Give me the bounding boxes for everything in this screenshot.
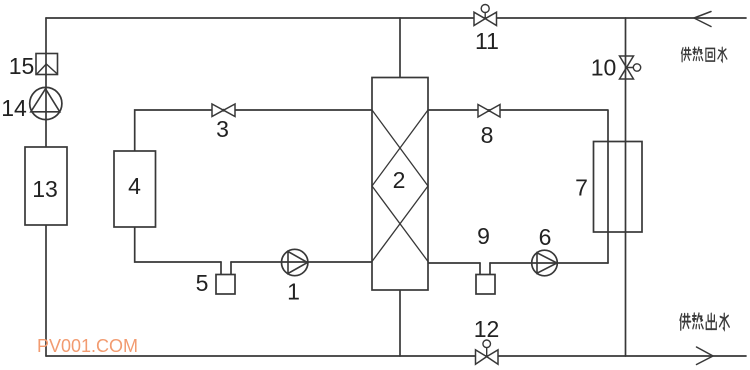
wire right loop supply — [428, 110, 608, 263]
valve 10 — [620, 56, 641, 79]
pump 6 — [532, 250, 558, 276]
wire right loop return — [428, 262, 608, 264]
wire strainer 9 stems — [480, 263, 490, 275]
strainer 9 pot — [476, 275, 495, 295]
svg-text:10: 10 — [591, 55, 617, 81]
svg-text:12: 12 — [474, 316, 500, 342]
wire exchanger bottom stem — [399, 290, 401, 356]
valve 8 — [478, 105, 500, 118]
svg-text:2: 2 — [393, 167, 406, 193]
heat exchanger 2 — [372, 78, 428, 291]
svg-text:PV001.COM: PV001.COM — [37, 336, 138, 356]
svg-text:6: 6 — [539, 224, 552, 250]
valve 11 — [474, 5, 497, 26]
svg-text:11: 11 — [475, 28, 499, 54]
label CJK bottom 供热出水 — [680, 313, 729, 330]
svg-text:4: 4 — [128, 173, 141, 199]
svg-text:5: 5 — [196, 270, 209, 296]
svg-text:15: 15 — [9, 53, 35, 79]
label CJK top 供热回水 — [681, 47, 726, 62]
filter 15 — [36, 54, 58, 75]
valve 3 — [212, 104, 235, 117]
svg-text:13: 13 — [32, 176, 58, 202]
wire exchanger top stem — [399, 18, 401, 78]
svg-text:7: 7 — [575, 175, 588, 201]
tank 13 — [25, 147, 67, 225]
pump 1 — [282, 249, 308, 275]
wire bottom header line — [46, 355, 746, 357]
strainer 5 pot — [216, 275, 235, 295]
valve 12 — [476, 340, 499, 364]
svg-text:8: 8 — [481, 122, 494, 148]
arrow top flow left — [694, 12, 711, 27]
svg-text:3: 3 — [216, 116, 229, 142]
wire strainer 5 stems — [221, 262, 231, 275]
wire left loop return — [135, 227, 372, 262]
svg-text:9: 9 — [477, 223, 490, 249]
tank 4 — [114, 151, 156, 227]
svg-text:1: 1 — [287, 279, 300, 305]
tank 7 — [594, 142, 643, 233]
wire right riser — [625, 18, 627, 356]
svg-text:14: 14 — [1, 95, 27, 121]
wire top header line — [46, 17, 746, 19]
arrow bottom flow right — [697, 347, 714, 365]
pump 14 — [30, 87, 62, 119]
wire left riser — [45, 18, 47, 356]
wire left loop supply — [135, 110, 372, 151]
